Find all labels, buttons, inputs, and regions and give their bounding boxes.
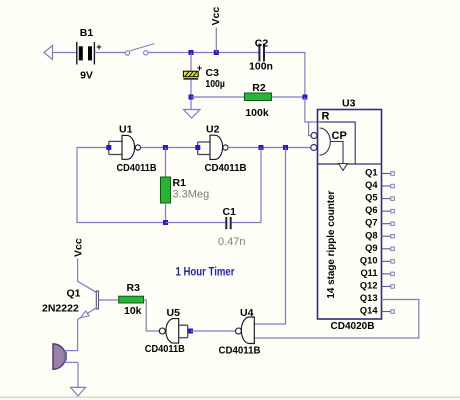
svg-text:Q4: Q4 [365, 180, 378, 190]
divider line [318, 163, 382, 165]
pin Q1 [365, 168, 394, 178]
wire Q13 to U4 bottom input [254, 300, 418, 339]
junction U1 out / R1 top [163, 145, 168, 150]
svg-text:Q10: Q10 [360, 255, 378, 265]
resistor R3 [119, 282, 144, 317]
pin Q14 [360, 306, 394, 316]
wire node to R2 [191, 96, 245, 98]
resistor R2 [245, 82, 272, 119]
pin Q12 [360, 281, 394, 291]
svg-text:C1: C1 [223, 206, 237, 218]
wire R input drop [309, 122, 312, 136]
pin Q6 [365, 205, 394, 215]
ground (bottom) [71, 387, 86, 396]
wire U2 out to U3 CP [228, 147, 311, 149]
pin Q10 [360, 255, 394, 265]
junction U4 drop [283, 145, 288, 150]
wire arrow to battery [53, 52, 77, 54]
svg-text:CD4011B: CD4011B [145, 344, 185, 355]
nand gate U2 [198, 124, 247, 175]
wire row down to U4 top input [254, 148, 285, 325]
wire C3 tap down [190, 53, 192, 72]
ground (top, under C3) [184, 110, 201, 119]
CP input bubble [311, 145, 317, 151]
wire switch to C2 [148, 52, 259, 54]
nand gate U5 (mirrored) [145, 307, 188, 355]
svg-text:U2: U2 [206, 124, 220, 136]
IC U3 CD4020B [311, 98, 382, 333]
pin Q4 [365, 180, 394, 190]
svg-text:U4: U4 [240, 307, 254, 319]
svg-text:10k: 10k [124, 305, 142, 317]
Vcc symbol (bottom left) [73, 238, 85, 281]
svg-text:Q9: Q9 [365, 243, 377, 253]
resistor R1 [161, 148, 210, 223]
junction C1 drop [259, 145, 264, 150]
svg-text:14 stage ripple counter: 14 stage ripple counter [326, 190, 337, 298]
junction U1 input [106, 145, 111, 150]
junction at C3 tap [189, 50, 194, 55]
svg-text:B1: B1 [80, 27, 94, 39]
junction C3/R2 node [189, 95, 194, 100]
svg-text:Vcc: Vcc [73, 238, 85, 257]
wire battery to switch [94, 52, 125, 54]
svg-text:U5: U5 [167, 307, 181, 319]
svg-text:U3: U3 [342, 98, 356, 110]
bottom page separator line [0, 397, 460, 398]
wire C3 to ground node [190, 80, 192, 110]
wire C2 to corner and down to R2 [265, 53, 305, 98]
svg-text:100k: 100k [245, 107, 269, 119]
pin Q8 [365, 230, 394, 240]
svg-text:CD4011B: CD4011B [205, 163, 247, 174]
svg-text:3.3Meg: 3.3Meg [173, 189, 210, 201]
wire speaker to emitter [77, 320, 79, 351]
svg-text:CD4020B: CD4020B [331, 321, 375, 332]
pin Q13 [360, 293, 378, 303]
svg-text:R2: R2 [252, 82, 266, 94]
switch S1 [125, 44, 154, 56]
svg-text:R: R [322, 111, 330, 123]
svg-text:CD4011B: CD4011B [219, 346, 261, 357]
internal gate shape [320, 128, 331, 155]
svg-text:Q13: Q13 [360, 293, 378, 303]
battery B1 [77, 27, 102, 82]
internal R line [320, 122, 356, 164]
nand gate U4 (mirrored) [219, 307, 261, 357]
svg-text:100n: 100n [249, 61, 273, 73]
svg-text:C2: C2 [255, 38, 269, 50]
junction R1 bottom [163, 220, 168, 225]
wire down to U3 R input [305, 97, 355, 122]
junction U5 inputs [188, 329, 193, 334]
svg-text:+: + [96, 42, 101, 52]
clock edge arrow [339, 164, 348, 171]
oscillator loop left wire [77, 148, 166, 223]
wire R3 to U5 output [144, 300, 160, 331]
svg-text:R3: R3 [127, 282, 141, 294]
speaker LS1 [53, 344, 78, 370]
pin Q9 [365, 243, 394, 253]
transistor Q1 2N2222 [42, 281, 119, 319]
internal CP line [330, 142, 343, 164]
svg-text:Q11: Q11 [360, 268, 377, 278]
svg-text:Q1: Q1 [365, 168, 377, 178]
capacitor C3 (electrolytic) [183, 63, 225, 90]
svg-text:+: + [197, 63, 202, 73]
svg-text:9V: 9V [80, 70, 93, 82]
svg-text:100µ: 100µ [205, 78, 225, 90]
pin Q5 [365, 193, 394, 203]
svg-text:U1: U1 [119, 124, 133, 136]
svg-text:Q7: Q7 [365, 218, 377, 228]
wire U1 out to U2 [141, 147, 198, 149]
junction at Vcc tap [214, 50, 219, 55]
svg-text:Q1: Q1 [67, 288, 81, 300]
wire C1 up to row [260, 148, 262, 223]
svg-text:2N2222: 2N2222 [42, 303, 79, 315]
wire U5 to U4 output [191, 330, 236, 332]
svg-text:CD4011B: CD4011B [117, 163, 157, 174]
junction R2/C2 node [302, 95, 307, 100]
svg-text:Q12: Q12 [360, 281, 378, 291]
capacitor C1 [166, 206, 262, 248]
svg-text:1 Hour Timer: 1 Hour Timer [176, 265, 235, 279]
svg-text:Q14: Q14 [360, 306, 378, 316]
capacitor C2 [249, 38, 273, 73]
wire speaker to ground [77, 362, 79, 387]
svg-text:CP: CP [332, 130, 347, 142]
R input bubble [311, 133, 317, 139]
svg-text:Vcc: Vcc [210, 7, 222, 26]
pin Q7 [365, 218, 394, 228]
pin Q11 [360, 268, 394, 278]
svg-text:Q6: Q6 [365, 205, 377, 215]
svg-text:R1: R1 [173, 177, 187, 189]
Vcc symbol (top) [210, 7, 222, 53]
nand gate U1 [109, 124, 157, 175]
svg-text:Q5: Q5 [365, 193, 377, 203]
wire R2 right [272, 96, 305, 98]
svg-text:0.47n: 0.47n [218, 236, 246, 248]
junction U2 input [195, 145, 200, 150]
input terminal arrow (left) [44, 46, 53, 60]
svg-text:Q8: Q8 [365, 230, 377, 240]
